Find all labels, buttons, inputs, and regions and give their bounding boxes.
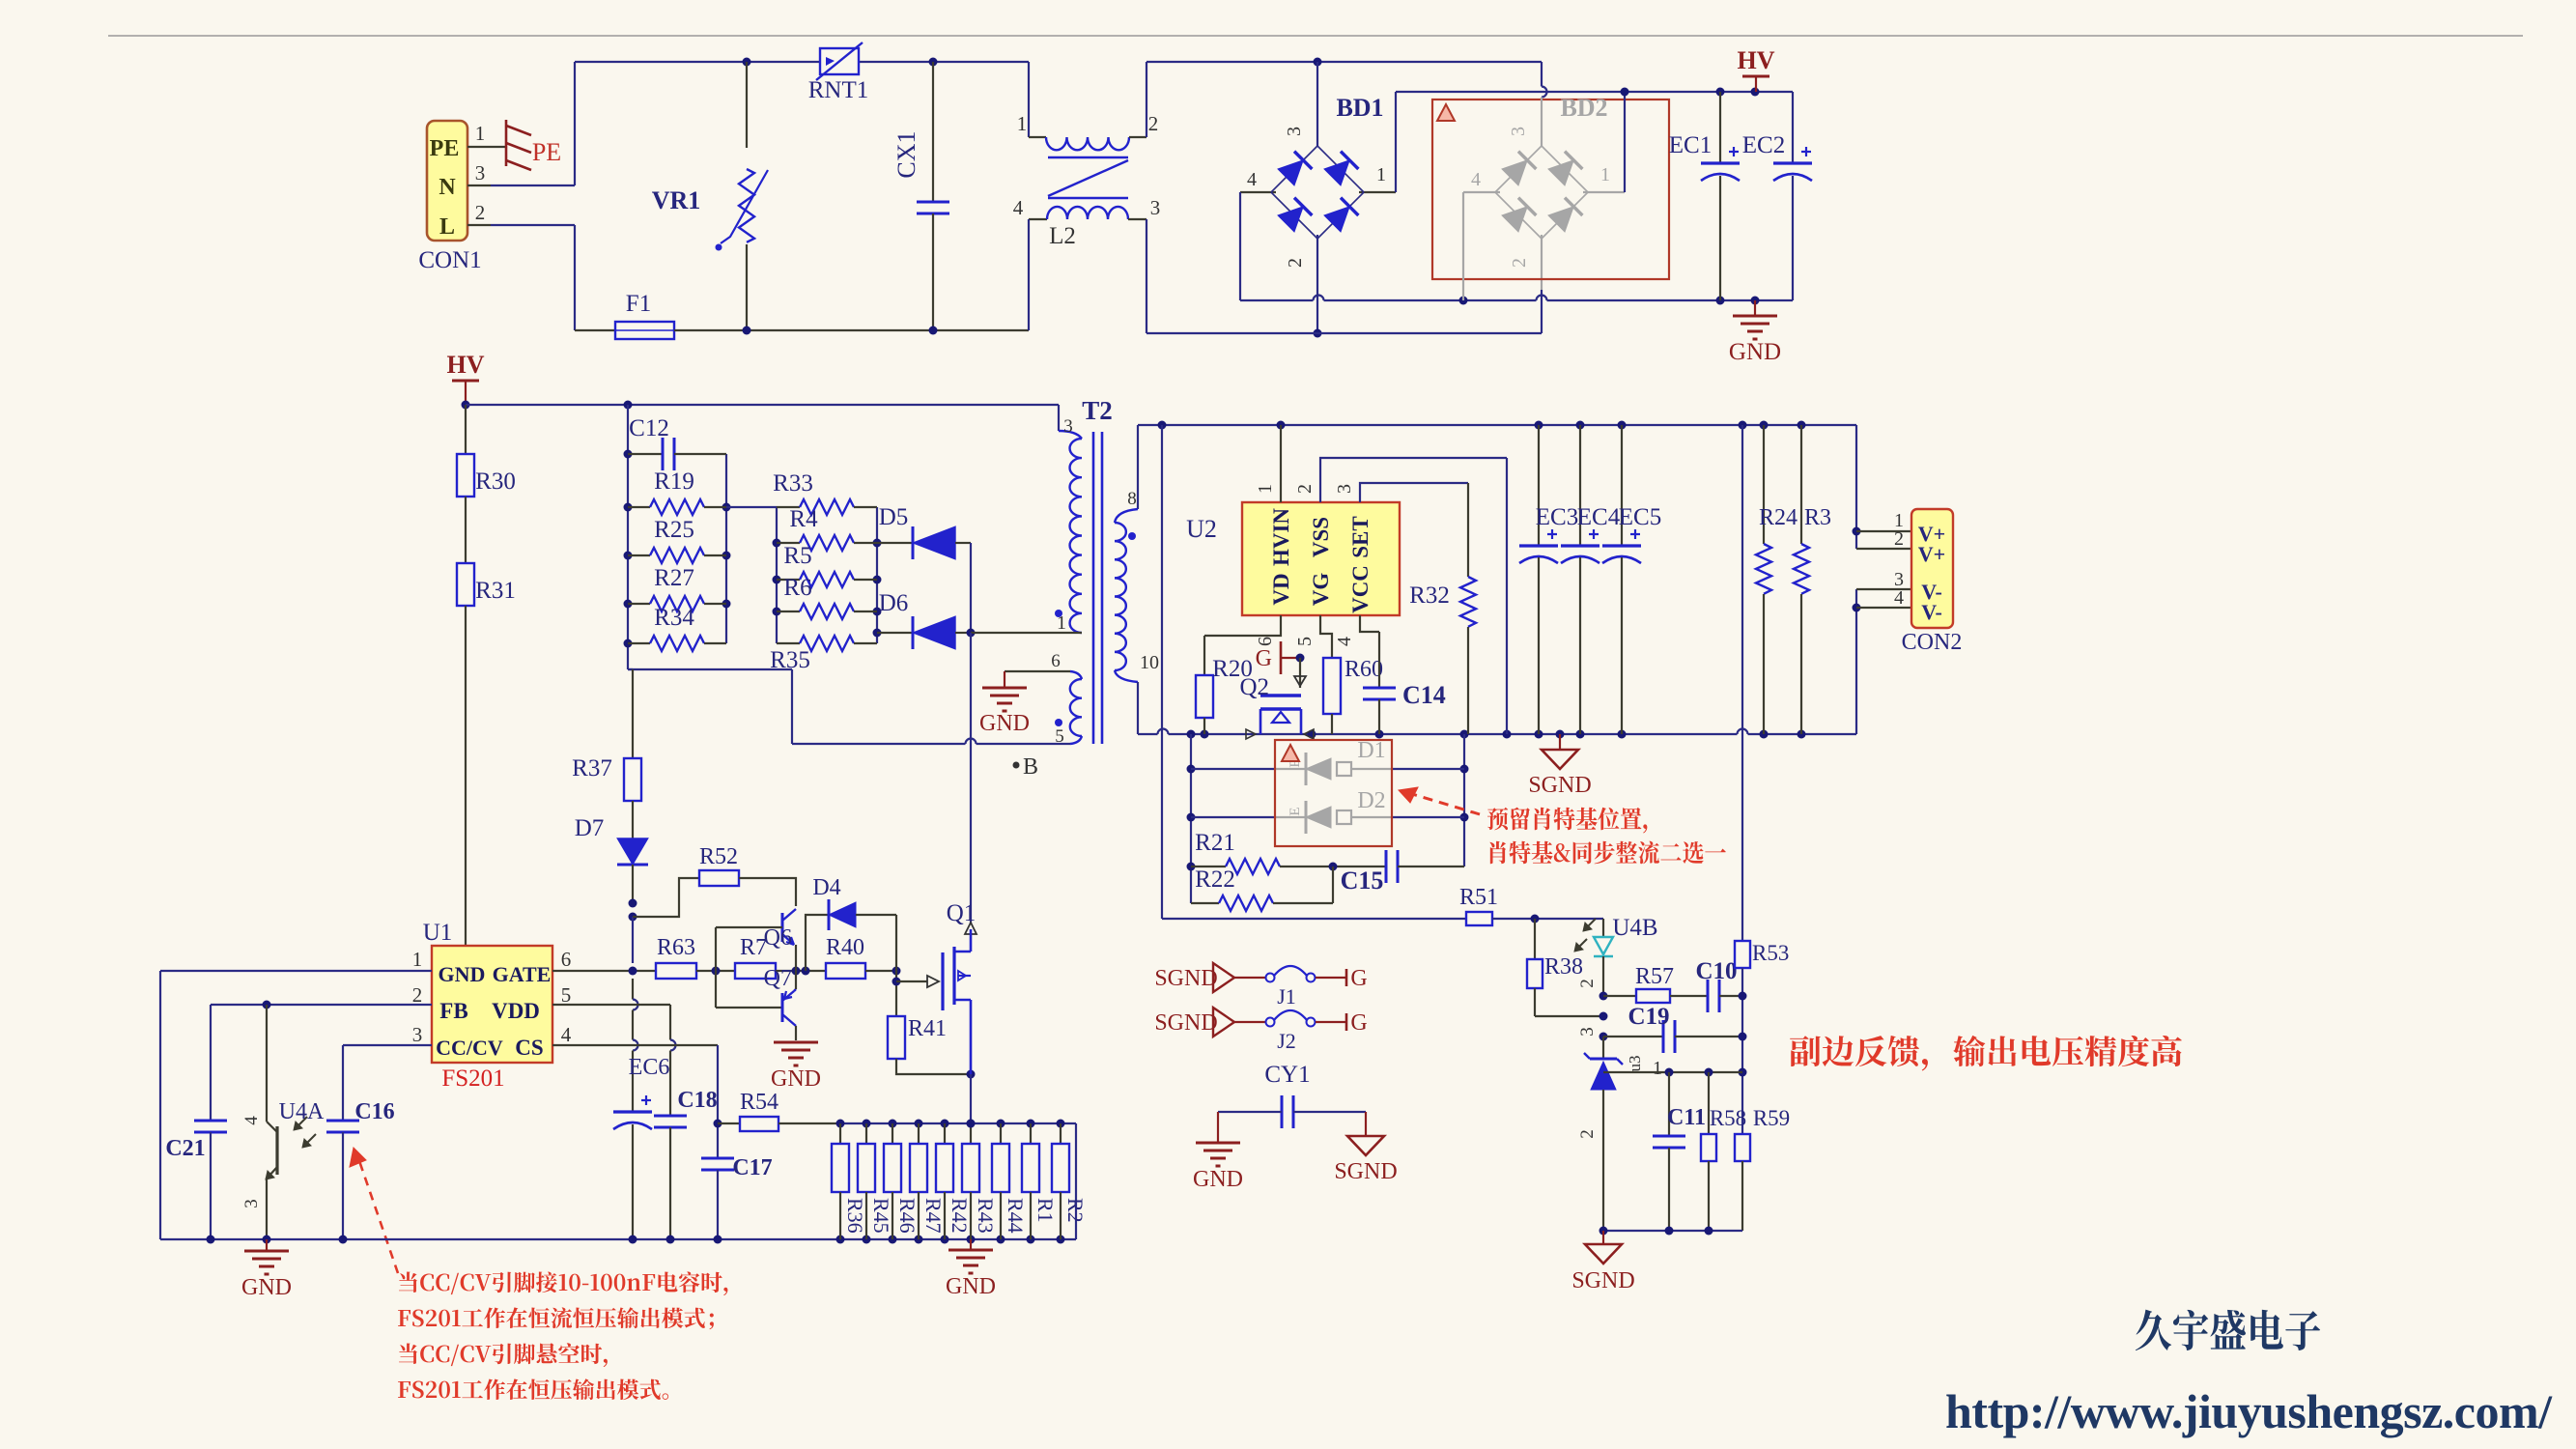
svg-text:R52: R52	[699, 844, 738, 869]
svg-text:R38: R38	[1544, 954, 1583, 980]
svg-text:1: 1	[1376, 164, 1386, 185]
svg-text:SGND: SGND	[1528, 773, 1591, 798]
svg-text:HV: HV	[447, 351, 485, 379]
svg-text:4: 4	[561, 1023, 572, 1046]
svg-text:R24: R24	[1759, 505, 1798, 530]
svg-text:R34: R34	[654, 605, 694, 631]
svg-text:6: 6	[561, 948, 572, 971]
svg-text:R42: R42	[948, 1198, 972, 1234]
svg-text:E: E	[1288, 807, 1303, 815]
svg-text:10: 10	[1140, 652, 1159, 673]
svg-text:2: 2	[1894, 528, 1904, 550]
svg-text:SGND: SGND	[1334, 1159, 1397, 1184]
svg-text:3: 3	[241, 1199, 262, 1208]
svg-text:L2: L2	[1049, 223, 1076, 249]
svg-text:3: 3	[1063, 416, 1073, 437]
svg-text:L: L	[439, 214, 455, 240]
svg-text:4: 4	[1471, 169, 1481, 190]
svg-text:R45: R45	[869, 1198, 893, 1234]
svg-text:CC/CV: CC/CV	[436, 1036, 503, 1060]
svg-text:R60: R60	[1345, 657, 1383, 682]
svg-text:5: 5	[561, 983, 572, 1007]
svg-text:R25: R25	[654, 517, 694, 543]
svg-text:D7: D7	[575, 815, 605, 841]
svg-text:VG: VG	[1309, 573, 1333, 607]
svg-text:u3: u3	[1626, 1056, 1644, 1072]
svg-text:C17: C17	[732, 1155, 772, 1180]
svg-text:VR1: VR1	[652, 186, 701, 214]
svg-text:4: 4	[1247, 169, 1257, 190]
svg-text:R43: R43	[974, 1198, 998, 1234]
svg-text:2: 2	[412, 983, 423, 1007]
svg-text:G: G	[1256, 646, 1272, 671]
svg-text:VD: VD	[1269, 573, 1293, 605]
svg-text:B: B	[1023, 754, 1038, 780]
svg-text:PE: PE	[532, 138, 561, 166]
svg-text:2: 2	[1577, 979, 1598, 988]
svg-text:CON2: CON2	[1902, 630, 1963, 655]
svg-text:D1: D1	[1357, 738, 1385, 763]
svg-text:U1: U1	[423, 920, 453, 946]
svg-text:EC1: EC1	[1669, 132, 1712, 158]
svg-text:4: 4	[241, 1116, 262, 1125]
svg-text:R51: R51	[1459, 885, 1498, 910]
svg-text:R4: R4	[789, 506, 818, 532]
svg-text:EC5: EC5	[1619, 504, 1661, 530]
svg-text:2: 2	[1294, 484, 1316, 494]
svg-text:GND: GND	[241, 1275, 292, 1300]
svg-text:R54: R54	[740, 1090, 778, 1115]
svg-text:3: 3	[1150, 196, 1161, 219]
svg-text:R2: R2	[1063, 1198, 1088, 1223]
svg-text:SGND: SGND	[1571, 1268, 1634, 1293]
svg-text:6: 6	[1255, 637, 1276, 646]
svg-text:R53: R53	[1752, 941, 1789, 965]
svg-text:GND: GND	[946, 1274, 996, 1299]
svg-text:R46: R46	[895, 1198, 920, 1234]
svg-text:R36: R36	[843, 1198, 867, 1234]
svg-text:C15: C15	[1341, 867, 1384, 895]
svg-text:CX1: CX1	[892, 130, 920, 178]
svg-text:5: 5	[1294, 637, 1316, 646]
svg-text:6: 6	[1051, 651, 1061, 671]
svg-text:R47: R47	[921, 1198, 946, 1234]
svg-text:C14: C14	[1402, 681, 1446, 709]
svg-text:4: 4	[1334, 637, 1355, 646]
svg-text:C10: C10	[1695, 958, 1737, 984]
svg-text:Q7: Q7	[764, 966, 792, 991]
svg-text:R59: R59	[1753, 1106, 1790, 1130]
svg-text:RNT1: RNT1	[808, 77, 869, 103]
svg-text:Q2: Q2	[1239, 674, 1269, 700]
svg-text:GATE: GATE	[493, 962, 552, 986]
svg-text:Q6: Q6	[764, 925, 792, 951]
svg-text:2: 2	[1285, 258, 1306, 268]
svg-text:GND: GND	[1729, 339, 1781, 365]
svg-text:FB: FB	[439, 999, 467, 1023]
svg-text:3: 3	[1284, 127, 1305, 136]
svg-text:CS: CS	[515, 1036, 543, 1060]
svg-text:SET: SET	[1348, 516, 1373, 557]
svg-text:EC6: EC6	[629, 1055, 670, 1080]
svg-text:V+: V+	[1918, 542, 1945, 566]
svg-text:R63: R63	[657, 935, 695, 960]
svg-text:R21: R21	[1195, 830, 1235, 856]
svg-text:1: 1	[1017, 112, 1028, 135]
svg-text:C12: C12	[629, 415, 669, 441]
svg-text:BD1: BD1	[1336, 94, 1383, 122]
svg-text:CY1: CY1	[1264, 1062, 1310, 1088]
svg-text:U4B: U4B	[1612, 915, 1657, 941]
svg-text:R57: R57	[1635, 964, 1674, 989]
svg-text:SGND: SGND	[1154, 966, 1217, 991]
svg-text:R44: R44	[1004, 1198, 1028, 1234]
svg-text:R33: R33	[773, 470, 813, 497]
svg-text:VCC: VCC	[1348, 565, 1373, 613]
svg-text:1: 1	[1057, 612, 1066, 634]
svg-text:R27: R27	[654, 565, 694, 591]
svg-text:R41: R41	[908, 1016, 947, 1041]
svg-text:J1: J1	[1277, 984, 1296, 1009]
svg-text:5: 5	[1055, 726, 1064, 747]
svg-text:3: 3	[412, 1023, 423, 1046]
svg-text:VSS: VSS	[1309, 517, 1333, 557]
svg-text:Q1: Q1	[947, 900, 977, 926]
svg-text:http://www.jiuyushengsz.com/: http://www.jiuyushengsz.com/	[1945, 1384, 2553, 1438]
svg-text:3: 3	[1334, 484, 1355, 494]
svg-text:R1: R1	[1033, 1198, 1058, 1223]
svg-text:R5: R5	[783, 543, 811, 569]
svg-text:J2: J2	[1277, 1029, 1296, 1053]
svg-text:GND: GND	[1193, 1167, 1243, 1192]
svg-text:2: 2	[1148, 112, 1159, 135]
svg-text:2: 2	[1509, 258, 1530, 268]
svg-text:U4A: U4A	[279, 1099, 325, 1124]
svg-text:1: 1	[475, 122, 486, 145]
svg-text:EC4: EC4	[1577, 504, 1621, 530]
svg-text:BD2: BD2	[1560, 94, 1607, 122]
svg-text:1: 1	[1653, 1058, 1662, 1079]
svg-text:R32: R32	[1409, 582, 1450, 609]
svg-text:C16: C16	[354, 1099, 394, 1124]
svg-text:C19: C19	[1628, 1004, 1669, 1030]
svg-text:R37: R37	[572, 755, 612, 781]
svg-text:C18: C18	[677, 1088, 717, 1113]
svg-text:D2: D2	[1357, 788, 1385, 813]
svg-text:1: 1	[1600, 164, 1610, 185]
svg-text:G: G	[1350, 966, 1367, 991]
svg-text:4: 4	[1894, 587, 1904, 609]
svg-text:V-: V-	[1921, 600, 1942, 624]
svg-text:PE: PE	[430, 136, 460, 161]
svg-text:U2: U2	[1186, 515, 1217, 543]
svg-text:HVIN: HVIN	[1269, 508, 1293, 566]
svg-text:HV: HV	[1738, 46, 1775, 74]
svg-text:EC3: EC3	[1536, 504, 1578, 530]
svg-text:R22: R22	[1195, 867, 1235, 893]
svg-text:EC2: EC2	[1742, 132, 1785, 158]
svg-text:3: 3	[1577, 1027, 1598, 1037]
svg-text:SGND: SGND	[1154, 1010, 1217, 1036]
svg-text:T2: T2	[1082, 396, 1113, 425]
svg-text:FS201: FS201	[441, 1065, 504, 1092]
svg-text:1: 1	[412, 948, 423, 971]
svg-text:GND: GND	[439, 962, 486, 986]
svg-text:D4: D4	[812, 875, 840, 900]
svg-text:F1: F1	[626, 291, 651, 317]
svg-text:R31: R31	[475, 578, 516, 604]
svg-text:R40: R40	[826, 935, 864, 960]
svg-text:C21: C21	[165, 1136, 205, 1161]
svg-text:R58: R58	[1710, 1106, 1746, 1130]
svg-text:C11: C11	[1667, 1105, 1706, 1130]
svg-text:N: N	[439, 175, 456, 200]
svg-text:3: 3	[1508, 127, 1529, 136]
svg-text:GND: GND	[771, 1066, 821, 1092]
svg-text:R30: R30	[475, 469, 516, 495]
svg-text:R6: R6	[783, 575, 811, 601]
svg-text:2: 2	[1577, 1129, 1598, 1139]
svg-text:D5: D5	[879, 504, 909, 530]
svg-text:GND: GND	[979, 711, 1030, 736]
svg-text:4: 4	[1013, 196, 1024, 219]
svg-text:R19: R19	[654, 469, 694, 495]
svg-text:2: 2	[475, 201, 486, 224]
svg-text:3: 3	[475, 161, 486, 185]
svg-text:8: 8	[1127, 489, 1137, 509]
svg-text:R3: R3	[1804, 505, 1831, 530]
svg-text:1: 1	[1255, 484, 1276, 494]
svg-text:D6: D6	[879, 590, 909, 616]
svg-text:VDD: VDD	[492, 999, 540, 1023]
svg-text:CON1: CON1	[418, 247, 481, 273]
svg-text:G: G	[1350, 1010, 1367, 1036]
